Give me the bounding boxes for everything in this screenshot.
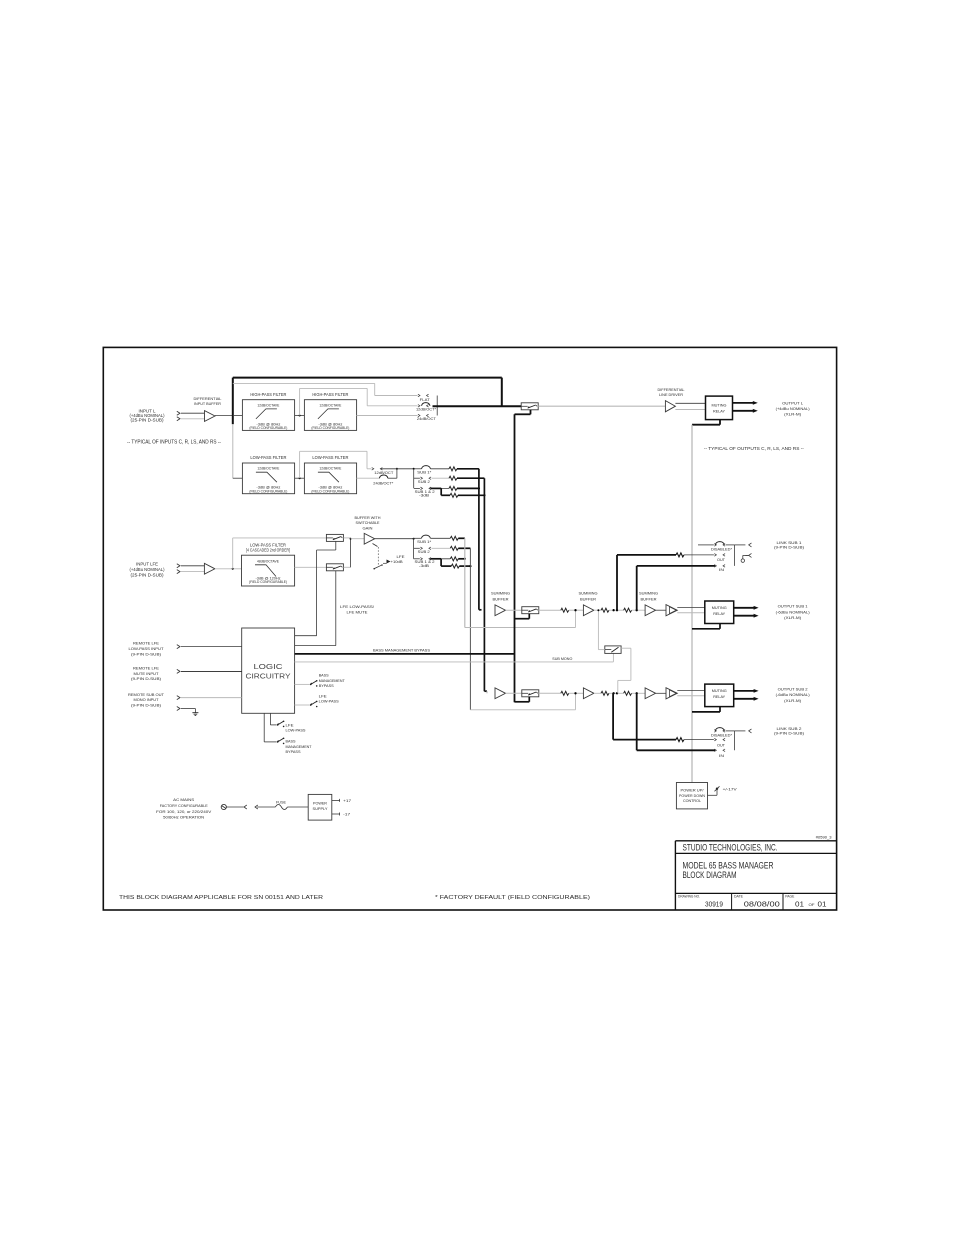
svg-text:REMOTE LFE: REMOTE LFE [133, 665, 159, 670]
svg-text:BASS: BASS [286, 740, 296, 744]
svg-text:+/-17V: +/-17V [723, 787, 738, 791]
svg-text:MUTING: MUTING [712, 605, 727, 610]
svg-text:LFE: LFE [397, 555, 405, 559]
svg-text:OUT: OUT [717, 558, 726, 562]
svg-text:(FIELD CONFIGURABLE): (FIELD CONFIGURABLE) [249, 426, 287, 430]
svg-text:08/08/00: 08/08/00 [744, 900, 780, 909]
svg-text:SUMMING: SUMMING [491, 591, 510, 596]
svg-text:LINE DRIVER: LINE DRIVER [659, 392, 683, 397]
svg-text:MUTING: MUTING [712, 688, 727, 693]
svg-text:BYPASS: BYPASS [286, 750, 301, 754]
svg-text:30919: 30919 [705, 900, 723, 909]
svg-text:BASS MANAGEMENT BYPASS: BASS MANAGEMENT BYPASS [373, 648, 430, 653]
svg-text:48dB/OCTAVE: 48dB/OCTAVE [257, 559, 280, 563]
svg-text:LOW-PASS INPUT: LOW-PASS INPUT [129, 646, 165, 651]
svg-text:OUT: OUT [717, 743, 726, 747]
svg-text:LFE LOW-PASS/: LFE LOW-PASS/ [340, 604, 375, 609]
svg-text:(+4dBu NOMINAL): (+4dBu NOMINAL) [776, 406, 811, 411]
svg-text:[4 CASCADED 2nd ORDER]: [4 CASCADED 2nd ORDER] [246, 547, 290, 552]
svg-text:STUDIO TECHNOLOGIES, INC.: STUDIO TECHNOLOGIES, INC. [683, 843, 778, 853]
svg-text:DRAWING NO.: DRAWING NO. [678, 895, 700, 899]
svg-text:POWER DOWN: POWER DOWN [679, 794, 705, 798]
svg-text:HIGH-PASS FILTER: HIGH-PASS FILTER [250, 392, 286, 397]
svg-text:CONTROL: CONTROL [683, 799, 701, 803]
svg-text:SUMMING: SUMMING [639, 591, 658, 596]
svg-text:BYPASS: BYPASS [319, 684, 334, 688]
svg-text:RELAY: RELAY [713, 611, 725, 616]
svg-text:12dB/OCTAVE: 12dB/OCTAVE [319, 403, 342, 407]
svg-text:SUB 1*: SUB 1* [417, 471, 432, 475]
svg-text:LFE: LFE [286, 723, 294, 727]
svg-text:RELAY: RELAY [713, 408, 725, 413]
svg-text:SUB 2: SUB 2 [418, 550, 430, 554]
svg-text:(FIELD CONFIGURABLE): (FIELD CONFIGURABLE) [311, 489, 349, 493]
svg-text:-- TYPICAL OF INPUTS C, R, LS,: -- TYPICAL OF INPUTS C, R, LS, AND RS -- [127, 440, 221, 446]
svg-text:+10dB: +10dB [391, 560, 403, 564]
svg-text:REMOTE SUB OUT: REMOTE SUB OUT [128, 692, 165, 697]
svg-text:FACTORY CONFIGURABLE: FACTORY CONFIGURABLE [160, 804, 208, 808]
svg-text:50/60Hz OPERATION: 50/60Hz OPERATION [163, 816, 204, 820]
svg-text:IN: IN [719, 754, 725, 758]
svg-text:(9-PIN D-SUB): (9-PIN D-SUB) [131, 676, 162, 681]
svg-text:12dB/OCT: 12dB/OCT [374, 471, 394, 475]
svg-text:DISABLED*: DISABLED* [711, 548, 733, 552]
svg-text:LOW-PASS FILTER: LOW-PASS FILTER [312, 455, 348, 460]
svg-text:#0590_3: #0590_3 [816, 835, 833, 840]
svg-text:24dB/OCT: 24dB/OCT [417, 417, 437, 421]
svg-text:BLOCK DIAGRAM: BLOCK DIAGRAM [683, 870, 737, 880]
svg-text:12dB/OCT*: 12dB/OCT* [416, 407, 437, 411]
svg-text:LOGIC: LOGIC [254, 662, 284, 671]
svg-text:SUB MONO: SUB MONO [552, 657, 572, 661]
svg-text:(9-PIN D-SUB): (9-PIN D-SUB) [131, 702, 162, 707]
svg-text:01: 01 [818, 900, 827, 909]
svg-text:(FIELD CONFIGURABLE): (FIELD CONFIGURABLE) [249, 489, 287, 493]
svg-text:BUFFER: BUFFER [580, 597, 596, 602]
svg-text:INPUT BUFFER: INPUT BUFFER [194, 401, 221, 406]
svg-text:12dB/OCTAVE: 12dB/OCTAVE [319, 467, 342, 471]
svg-text:(XLR-M): (XLR-M) [784, 698, 802, 703]
svg-text:OUTPUT SUB 1: OUTPUT SUB 1 [778, 604, 809, 609]
svg-text:(25-PIN D-SUB): (25-PIN D-SUB) [131, 418, 165, 423]
svg-text:IN: IN [719, 568, 725, 572]
svg-text:REMOTE LFE: REMOTE LFE [133, 641, 159, 646]
svg-text:LOW-PASS: LOW-PASS [319, 700, 339, 704]
svg-text:POWER: POWER [313, 800, 327, 805]
svg-text:SUPPLY: SUPPLY [313, 806, 328, 811]
svg-text:DISABLED*: DISABLED* [711, 733, 733, 737]
svg-text:HIGH-PASS FILTER: HIGH-PASS FILTER [312, 392, 348, 397]
svg-text:OF: OF [809, 902, 816, 907]
svg-text:MANAGEMENT: MANAGEMENT [319, 679, 346, 683]
svg-text:-3dB: -3dB [419, 564, 430, 568]
svg-text:LOW-PASS: LOW-PASS [286, 729, 306, 733]
svg-text:12dB/OCTAVE: 12dB/OCTAVE [257, 467, 280, 471]
svg-text:OUTPUT SUB 2: OUTPUT SUB 2 [778, 686, 809, 691]
svg-text:(FIELD CONFIGURABLE): (FIELD CONFIGURABLE) [249, 580, 287, 584]
svg-text:LOW-PASS FILTER: LOW-PASS FILTER [250, 455, 286, 460]
svg-text:LFE: LFE [319, 694, 327, 698]
svg-text:(-6dBu NOMINAL): (-6dBu NOMINAL) [776, 692, 811, 697]
svg-text:(9-PIN D-SUB): (9-PIN D-SUB) [131, 651, 162, 656]
svg-text:DATE: DATE [734, 895, 743, 899]
svg-text:BUFFER: BUFFER [641, 597, 657, 602]
svg-text:THIS BLOCK DIAGRAM APPLICABLE: THIS BLOCK DIAGRAM APPLICABLE FOR SN 001… [119, 895, 323, 901]
svg-text:-3dB: -3dB [419, 494, 430, 498]
svg-text:SUB 1*: SUB 1* [417, 540, 432, 544]
svg-text:MANAGEMENT: MANAGEMENT [286, 745, 313, 749]
svg-text:GAIN: GAIN [363, 525, 373, 530]
svg-text:CIRCUITRY: CIRCUITRY [246, 671, 291, 680]
svg-text:POWER UP/: POWER UP/ [681, 789, 705, 793]
svg-text:FUSE: FUSE [276, 801, 286, 805]
svg-text:24dB/OCT*: 24dB/OCT* [373, 481, 394, 485]
svg-text:12dB/OCTAVE: 12dB/OCTAVE [257, 403, 280, 407]
svg-text:(FIELD CONFIGURABLE): (FIELD CONFIGURABLE) [311, 426, 349, 430]
svg-text:AC MAINS: AC MAINS [173, 798, 194, 802]
svg-text:LFE MUTE: LFE MUTE [347, 610, 368, 615]
svg-text:-17: -17 [343, 813, 350, 817]
svg-text:(9-PIN D-SUB): (9-PIN D-SUB) [774, 545, 805, 550]
svg-text:-- TYPICAL OF OUTPUTS C, R, LS: -- TYPICAL OF OUTPUTS C, R, LS, AND RS -… [704, 446, 804, 452]
svg-text:RELAY: RELAY [713, 694, 725, 699]
svg-text:(25-PIN D-SUB): (25-PIN D-SUB) [131, 572, 165, 577]
svg-text:+17: +17 [343, 799, 351, 803]
svg-text:SUB 2: SUB 2 [418, 480, 430, 484]
svg-text:FLAT: FLAT [420, 398, 431, 402]
svg-text:MUTING: MUTING [712, 403, 727, 408]
svg-text:* FACTORY DEFAULT (FIELD CONFI: * FACTORY DEFAULT (FIELD CONFIGURABLE) [435, 895, 590, 901]
svg-text:MUTE INPUT: MUTE INPUT [134, 671, 160, 676]
svg-text:OUTPUT L: OUTPUT L [782, 400, 804, 405]
svg-text:(XLR-M): (XLR-M) [784, 615, 802, 620]
svg-text:INPUT LFE: INPUT LFE [136, 562, 158, 567]
svg-text:FOR 100, 120, or 220/240V: FOR 100, 120, or 220/240V [156, 810, 212, 814]
svg-text:BUFFER: BUFFER [493, 597, 509, 602]
svg-text:(XLR-M): (XLR-M) [784, 411, 802, 416]
svg-text:(9-PIN D-SUB): (9-PIN D-SUB) [774, 731, 805, 736]
svg-text:PAGE: PAGE [785, 895, 794, 899]
svg-text:(-6dBu NOMINAL): (-6dBu NOMINAL) [776, 609, 811, 614]
svg-text:01: 01 [795, 900, 804, 909]
svg-text:BASS: BASS [319, 674, 329, 678]
svg-text:SUMMING: SUMMING [579, 591, 598, 596]
